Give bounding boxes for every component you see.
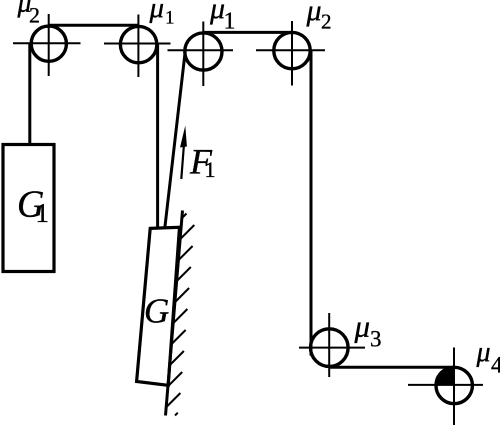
- svg-text:1: 1: [165, 8, 175, 29]
- wire rope from pulley P2 down to block G: [156, 45, 159, 229]
- svg-text:1: 1: [224, 9, 236, 35]
- wire rope over pulleys P1 to P2: [48, 24, 139, 27]
- svg-text:3: 3: [370, 327, 382, 352]
- pulley P6 (mu4, bottom-right, quadrant filled): [408, 348, 483, 426]
- svg-text:μ: μ: [476, 337, 491, 368]
- hatching of incline wall: [166, 214, 194, 416]
- wire rope from pulley P5 to pulley P6: [329, 366, 454, 369]
- svg-text:μ: μ: [306, 0, 322, 27]
- wire rope from block G up to pulley P3: [165, 52, 185, 229]
- svg-text:1: 1: [205, 157, 216, 182]
- pulley P5 (mu3, bottom): [299, 313, 365, 377]
- pulley P3 (mu1, third from left): [168, 22, 234, 87]
- svg-text:G: G: [144, 292, 169, 331]
- svg-text:4: 4: [491, 353, 500, 378]
- pulley P4 (mu2, top-right): [256, 21, 325, 86]
- block G1 (hanging weight, left): [3, 145, 54, 272]
- block G (tilted block on incline): [137, 227, 180, 385]
- svg-text:μ: μ: [354, 309, 371, 344]
- wire rope from pulley P4 down to pulley P5: [310, 51, 313, 356]
- arrow F1 (force arrow): [180, 126, 187, 180]
- pulley P1 (mu2, top-left): [13, 14, 81, 76]
- pulley P2 (mu1, second from left): [104, 15, 171, 78]
- svg-text:2: 2: [321, 10, 332, 34]
- svg-text:μ: μ: [149, 0, 165, 24]
- incline wall surface: [166, 211, 183, 416]
- svg-text:1: 1: [36, 198, 50, 228]
- wire rope from block G1 up to pulley P1: [28, 44, 31, 145]
- wire rope over pulleys P3 to P4: [203, 31, 292, 34]
- svg-text:2: 2: [29, 3, 40, 28]
